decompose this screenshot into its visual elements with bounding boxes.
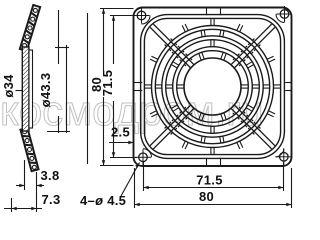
dim phi34 leader [16,90,23,92]
side view: flange plate (hatched) [22,47,29,131]
hole bosses [142,14,285,157]
frame connectors [134,8,292,166]
ext top hole to left [110,15,137,17]
ring band 1 outer (rounded square) [141,15,285,159]
corner spokes [150,24,275,149]
aux line [55,47,69,49]
side view: flange lip [29,50,33,128]
crosshairs [134,6,293,165]
central hole [184,58,241,115]
corner mounting holes [134,6,293,165]
dim 71.5 bottom line [144,187,284,189]
leader 4-phi4.5 [121,163,140,197]
ext hole bottom-right down [283,162,285,191]
dim 7.3 extension [11,198,13,212]
arrowhead leader [135,163,139,168]
dim 2.5 line [109,142,134,144]
ext hole bottom-left down [143,162,145,191]
dim 7.3 line [4,208,42,210]
hole bottom-left [139,153,148,162]
svg-text:3.8: 3.8 [41,168,60,183]
svg-text:80: 80 [199,189,214,204]
ext top edge to left [100,8,134,10]
hole top-left [137,11,146,20]
dim 3.8 line [16,185,25,187]
svg-text:71.5: 71.5 [196,173,223,188]
svg-text:4–ø 4.5: 4–ø 4.5 [80,193,126,208]
dim 3.8 extension lines [24,160,26,190]
hole top-right [280,10,289,19]
dim 80 vertical line [103,9,105,73]
aux vertical line [66,45,68,133]
dim 71.5 vertical line [113,16,115,65]
hole bottom-right [280,153,289,162]
arrowheads bottom 80 [135,203,140,206]
ring band 1 inner [144,18,280,154]
dim 80 bottom line [135,204,292,206]
aux tall line [87,13,89,164]
side view: bottom wire stack [20,128,38,171]
ring band 4 [173,47,253,127]
arrowheads 7.3 [12,207,17,210]
ribs [144,18,280,154]
ext bottom edge to left [100,165,134,167]
ring band 3 [162,36,263,137]
ring band 2 [152,26,274,148]
dim phi43.3 line [58,10,60,64]
ext corner br down [291,168,293,208]
side view: top wire stack [20,5,40,51]
arrowhead dim 2.5 [128,141,133,144]
ext bottom hole to left [110,157,137,159]
arrowheads bottom 71.5 [144,186,149,189]
svg-text:ø43.3: ø43.3 [38,73,53,108]
ext corner bl down [134,168,136,208]
arrowheads dim 80 vertical [102,9,105,14]
svg-text:ø34: ø34 [1,74,16,98]
arrowheads dim 71.5 vertical [112,16,115,21]
svg-text:71.5: 71.5 [100,70,115,97]
aux bottom line [47,131,70,133]
arrowheads 3.8 [19,184,24,187]
svg-text:2.5: 2.5 [111,125,130,140]
svg-text:7.3: 7.3 [42,192,61,207]
